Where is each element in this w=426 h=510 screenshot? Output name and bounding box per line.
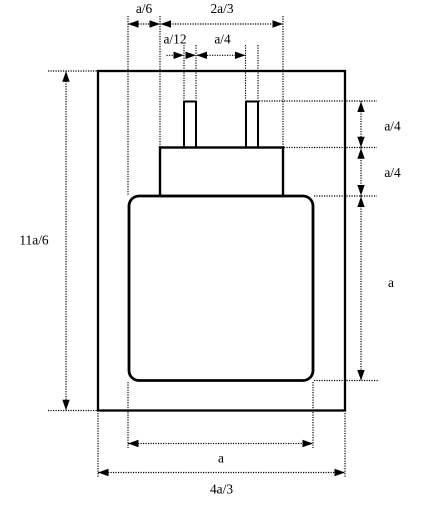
dimension a/12 (second row, prong width 184 to 196) bbox=[167, 52, 197, 59]
dimension a/4 vertical (prong height 101 to 147.5) bbox=[357, 101, 364, 148]
dimension a/4 vertical (base height 147.5 to 196) bbox=[357, 148, 364, 197]
extension line y=71 (outer top, left side) bbox=[48, 70, 97, 72]
extension line y=101 (prong top, right side) bbox=[259, 100, 377, 102]
svg-text:a/4: a/4 bbox=[384, 165, 401, 180]
svg-text:a/12: a/12 bbox=[163, 32, 186, 47]
dimension 11a/6 vertical (outer height 71 to 410.5) bbox=[62, 71, 69, 411]
extension line y=410.5 (outer bottom, left side) bbox=[48, 410, 97, 412]
extension line x=313 bottom (body right edge) bbox=[312, 382, 314, 448]
extension line x=246 (right prong left edge) bbox=[245, 45, 247, 100]
extension line y=196 (body top, right side) bbox=[314, 195, 377, 197]
extension line x=283 (base right edge) bbox=[282, 16, 284, 147]
svg-text:a: a bbox=[388, 275, 394, 290]
dimension 2a/3 (top row, 160 to 283) bbox=[160, 20, 283, 27]
extension line y=147.5 (base top, right side) bbox=[284, 147, 377, 149]
extension line y=380.5 (body bottom, right side) bbox=[314, 380, 378, 382]
left prong bbox=[184, 102, 196, 148]
extension line x=184 (left prong left edge) bbox=[183, 45, 185, 100]
extension line x=128 bottom (body left edge) bbox=[127, 382, 129, 448]
dimension a/6 (top row, 128 to 160) bbox=[128, 20, 160, 27]
outer rectangle (adapter outline box) bbox=[98, 71, 345, 411]
svg-text:4a/3: 4a/3 bbox=[210, 482, 233, 497]
extension line x=258 (right prong right edge) bbox=[257, 45, 259, 100]
svg-text:a/4: a/4 bbox=[214, 32, 231, 47]
svg-text:a/6: a/6 bbox=[136, 1, 153, 16]
extension line x=98 bottom (outer left edge) bbox=[97, 413, 99, 477]
svg-text:a/4: a/4 bbox=[384, 119, 401, 134]
dimension 4a/3 horizontal (outer width 98 to 345) bbox=[98, 469, 345, 476]
svg-text:2a/3: 2a/3 bbox=[210, 1, 233, 16]
svg-text:a: a bbox=[218, 451, 224, 466]
extension line x=345 bottom (outer right edge) bbox=[344, 413, 346, 477]
extension line x=160 (base left edge) bbox=[159, 16, 161, 147]
dimension a vertical (body height 196 to 380.5) bbox=[357, 196, 364, 381]
svg-text:11a/6: 11a/6 bbox=[19, 233, 49, 248]
right prong bbox=[246, 102, 258, 148]
plug base rectangle bbox=[160, 148, 283, 197]
adapter body (rounded rectangle) bbox=[129, 196, 313, 381]
dimension a horizontal (body width 128 to 313) bbox=[128, 440, 313, 447]
extension line x=196 (left prong right edge) bbox=[195, 45, 197, 100]
extension line x=128 (body left edge, top) bbox=[127, 16, 129, 195]
dimension a/4 (second row, prong gap 196 to 245.5) bbox=[197, 52, 246, 59]
